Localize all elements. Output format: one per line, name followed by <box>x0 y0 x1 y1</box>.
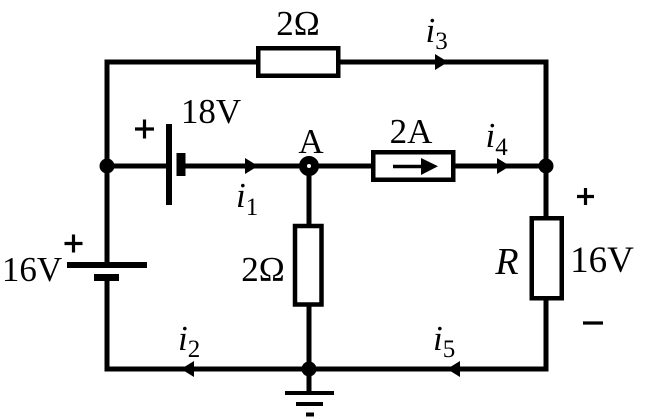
svg-text:16V: 16V <box>2 250 62 289</box>
resistor 2ohm (middle vertical) <box>295 226 322 305</box>
wire middle (left node to 18V battery) <box>107 164 169 169</box>
resistor 2ohm (top) <box>258 48 338 76</box>
svg-text:16V: 16V <box>570 240 634 281</box>
wire middle (2A source to right node) <box>453 164 546 169</box>
wire left vertical lower (16V battery to bottom-left corner) <box>107 278 184 369</box>
wire middle vertical (node A down to 2ohm resistor) <box>307 166 312 225</box>
current arrow i2 <box>181 361 194 377</box>
wire bottom-right (ground node to right corner) <box>309 300 546 369</box>
wire top-right horizontal (top resistor to right corner down to node) <box>338 62 546 166</box>
arrow inside 2A source <box>393 165 424 169</box>
svg-text:R: R <box>494 241 518 283</box>
plus sign (R voltage polarity) <box>577 188 594 205</box>
wire left vertical upper (left node down to 16V battery) <box>105 164 110 263</box>
svg-text:2A: 2A <box>390 112 434 151</box>
svg-text:2Ω: 2Ω <box>276 4 320 43</box>
ground <box>285 369 334 415</box>
battery 18V short plate <box>177 153 186 176</box>
svg-text:2Ω: 2Ω <box>241 250 285 289</box>
battery 16V short plate <box>94 274 119 281</box>
minus sign (R voltage polarity) <box>583 321 603 324</box>
battery 16V long plate <box>67 262 147 268</box>
wire bottom (i2 segment to ground node) <box>181 367 309 372</box>
current arrow i4 <box>497 158 510 174</box>
plus sign (16V polarity) <box>65 235 83 253</box>
current arrow i1 <box>245 158 258 174</box>
current source 2A box <box>373 152 453 180</box>
wire middle vertical (2ohm resistor to ground node) <box>307 306 312 369</box>
battery 18V long plate <box>166 124 172 205</box>
junction dot left node <box>100 159 115 174</box>
wire middle (18V battery to node A) <box>185 164 309 169</box>
svg-text:18V: 18V <box>181 92 241 131</box>
resistor R (right vertical) <box>532 218 562 298</box>
junction dot right node <box>539 159 554 174</box>
svg-text:A: A <box>298 122 324 161</box>
current arrow i3 <box>435 54 448 70</box>
plus sign (18V polarity) <box>135 120 154 139</box>
current arrow i5 <box>447 361 460 377</box>
wire top-left horizontal (left corner to top resistor) <box>107 62 258 166</box>
junction dot ground node <box>302 362 317 377</box>
node A (circle terminal) <box>303 160 315 172</box>
wire middle (node A to 2A source) <box>309 164 373 169</box>
wire right vertical (right node to resistor R) <box>544 166 549 218</box>
